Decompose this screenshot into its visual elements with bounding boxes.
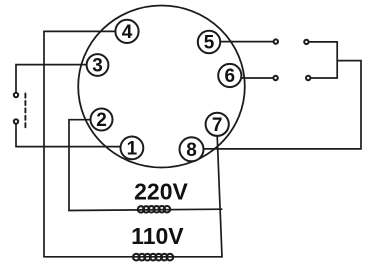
switch S1 top contact	[14, 93, 18, 97]
pin 6	[218, 64, 241, 87]
svg-text:4: 4	[122, 22, 133, 43]
wire S2 common bar	[336, 42, 338, 78]
wire left bus down to 110V winding	[43, 31, 45, 256]
pin 8	[180, 137, 204, 161]
pin 2	[91, 109, 113, 131]
wire pin2 to 220V winding	[69, 120, 91, 211]
winding W2 (110V)	[133, 254, 173, 261]
wire 220V primary line	[69, 209, 222, 210]
pin 3	[87, 54, 109, 76]
svg-text:8: 8	[186, 140, 197, 161]
svg-text:6: 6	[225, 66, 236, 87]
wire pin6 to switch S2 lower	[241, 77, 273, 79]
winding W1 (220V)	[138, 206, 170, 213]
wire pin7 down to winding right ends	[217, 136, 222, 257]
switch S2 lower right contact	[306, 76, 310, 80]
pin 5	[198, 31, 220, 53]
wire pin4 to left bus	[44, 30, 116, 32]
switch S2 upper right contact	[304, 40, 308, 44]
socket outline (tube socket circle)	[78, 6, 245, 168]
wire switch S1 bottom to pin1	[16, 124, 121, 147]
pin 4	[115, 20, 138, 43]
svg-text:3: 3	[92, 56, 103, 77]
switch S1 actuator dashed link	[24, 94, 26, 129]
wire pin8 to right bus	[203, 148, 361, 150]
wire S2 upper contact to common bar	[309, 41, 337, 43]
wire pin5 to switch S2 upper	[220, 41, 273, 43]
pin 1	[120, 137, 143, 160]
pin 7	[206, 113, 229, 136]
wire pin3 to switch S1 top	[16, 65, 87, 93]
switch S1 bottom contact	[14, 119, 18, 123]
switch S2 upper left contact	[274, 39, 278, 43]
wire 110V primary line	[44, 256, 222, 258]
svg-text:7: 7	[212, 115, 223, 136]
svg-text:110V: 110V	[131, 223, 184, 249]
svg-text:2: 2	[96, 110, 107, 131]
switch S2 lower left contact	[273, 76, 277, 80]
wire S2 common to right bus down to pin8 line	[337, 61, 361, 149]
svg-text:1: 1	[127, 138, 138, 159]
svg-text:220V: 220V	[134, 179, 188, 205]
svg-text:5: 5	[204, 33, 215, 54]
wire S2 lower contact to common bar	[311, 77, 338, 79]
